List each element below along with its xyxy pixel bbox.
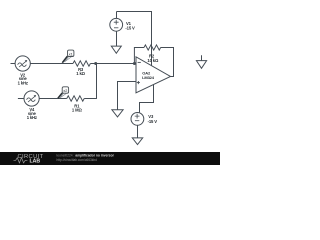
svg-text:x2: x2 [63,89,67,93]
svg-text:-15 V: -15 V [148,119,158,124]
svg-text:-15 V: -15 V [125,25,135,30]
svg-text:LM324: LM324 [142,75,155,80]
svg-text:1 kΩ: 1 kΩ [76,71,85,76]
svg-text:x1: x1 [69,52,73,56]
svg-text:1 kHz: 1 kHz [27,115,37,120]
svg-text:1 MΩ: 1 MΩ [72,108,83,113]
svg-text:leonel0224 : amplificador no i: leonel0224 : amplificador no inversor [57,153,115,157]
svg-text:1 kHz: 1 kHz [18,80,28,85]
svg-text:LAB: LAB [30,158,41,164]
svg-text:http://circuitlab.com/c663kbd: http://circuitlab.com/c663kbd [57,158,98,162]
svg-text:10 kΩ: 10 kΩ [147,58,159,63]
